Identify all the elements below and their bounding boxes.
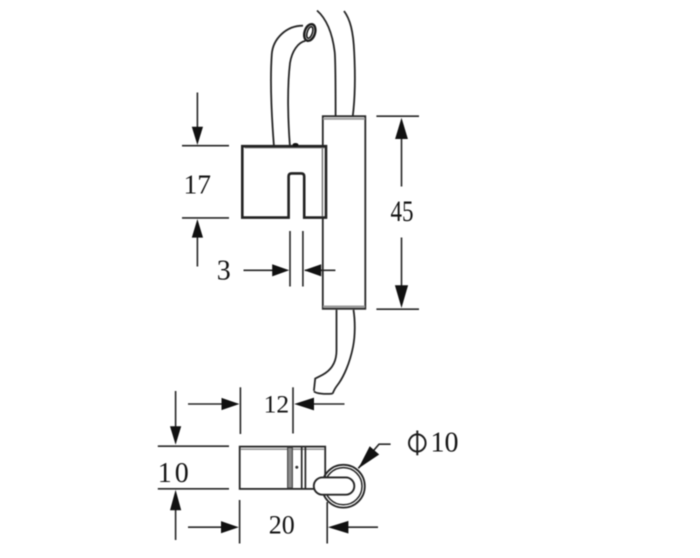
cable top-right (from body top, curving right off top) xyxy=(317,11,355,117)
cylinder (bottom part body) xyxy=(240,447,326,489)
svg-text:20: 20 xyxy=(269,511,295,540)
junction dot on bracket top xyxy=(293,143,299,147)
label phi 10 xyxy=(409,428,459,459)
ring (round end, diameter 10) xyxy=(322,465,365,508)
svg-text:12: 12 xyxy=(264,389,290,418)
svg-text:3: 3 xyxy=(217,256,231,287)
body (vertical sensor body rectangle) xyxy=(323,116,366,309)
dimension 20 (cylinder length) xyxy=(188,500,378,544)
dimension 17 xyxy=(182,93,229,267)
dimension 45 (body height) xyxy=(376,116,419,309)
svg-text:10: 10 xyxy=(431,428,459,459)
cable bottom (from body bottom, curving down-left) xyxy=(314,310,355,394)
cable top-left (from bracket top, with cut end ellipse) xyxy=(271,23,317,147)
cable stub (stadium through ring) xyxy=(314,477,355,494)
dimension 10 (cylinder height) xyxy=(158,391,229,540)
bracket (U-slotted block) xyxy=(242,146,326,217)
svg-text:17: 17 xyxy=(184,168,212,199)
svg-text:45: 45 xyxy=(391,195,414,228)
leader line for diameter 10 xyxy=(358,444,390,468)
svg-text:10: 10 xyxy=(158,458,192,489)
dimension 12 (cylinder left section) xyxy=(188,387,345,434)
dimension 3 (slot width) xyxy=(244,231,336,287)
